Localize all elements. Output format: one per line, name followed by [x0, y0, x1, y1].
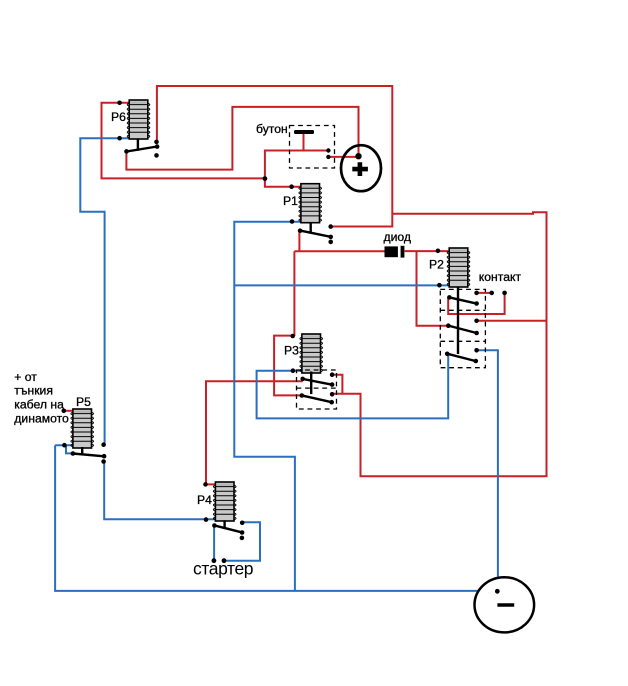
svg-text:динамото: динамото [14, 412, 69, 426]
svg-text:P3: P3 [284, 344, 299, 358]
wire red: diode line right segment to P2 coil [405, 250, 449, 252]
kontakt dashed divider 2 [440, 340, 485, 342]
kontakt SW1 armature [449, 297, 476, 303]
switch P6: armature [127, 147, 158, 152]
plus terminal circle [341, 145, 381, 191]
wire red: P3 upper NC contact riser stub [332, 375, 342, 394]
svg-text:бутон: бутон [256, 122, 288, 136]
diode line junction dot [436, 249, 441, 254]
svg-text:P1: P1 [283, 194, 298, 208]
wire blue: left tall wire down and along bottom to minus terminal [55, 445, 478, 591]
svg-text:+ от: + от [14, 370, 37, 384]
wire red: top loop from P6 NC contact to P1 NC contact via right side [157, 86, 392, 227]
kontakt dots [445, 291, 507, 364]
svg-text:P4: P4 [197, 493, 212, 507]
junction dot at (265,178.6) [263, 176, 268, 181]
P3 dots [290, 334, 334, 405]
P5 dots [62, 409, 107, 464]
wire red: button upper terminal wire, down to junction and to P1 coil [265, 151, 329, 187]
switch P3 lower armature [302, 395, 332, 402]
wire red: P1 pivot down to diode line [298, 231, 300, 251]
minus terminal circle [475, 577, 535, 632]
P4 dots [203, 482, 244, 540]
wire blue: P4 pivot down to starter terminal A [213, 526, 215, 561]
svg-text:стартер: стартер [193, 559, 253, 579]
plus sign [352, 162, 368, 176]
svg-text:контакт: контакт [479, 270, 522, 284]
svg-text:кабел на: кабел на [14, 398, 64, 412]
wire red: P3 upper pivot feed left and down to P4 coil [206, 381, 303, 484]
kontakt dashed box [440, 289, 485, 367]
relay coil P2 [447, 248, 470, 287]
wire blue: P5 coil bottom feed [55, 444, 73, 446]
wire red: kontakt SW1 contact stub to terminal A [477, 292, 492, 294]
kontakt SW3 armature [447, 354, 476, 361]
svg-text:P2: P2 [429, 258, 444, 272]
switch P6: dots [117, 101, 159, 158]
switch P5: actuator [81, 447, 83, 454]
P3 dashed box [297, 370, 337, 409]
relay coil P6 [127, 100, 150, 139]
wire red: diode line left segment [294, 250, 384, 252]
button terminal dots [326, 148, 330, 159]
wire blue: starter terminal B loop to P4 NC contact [224, 522, 260, 560]
svg-text:P6: P6 [111, 110, 126, 124]
wire red: P5 coil top stub [64, 410, 73, 412]
switch P1: dots [289, 184, 333, 244]
svg-text:тънкия: тънкия [14, 384, 53, 398]
wire blue: kontakt SW3 contact down to minus circle [477, 350, 498, 576]
wire blue: branch at y=285 to P2 coil bottom [234, 284, 449, 286]
minus sign [497, 603, 514, 607]
switch P6: actuator [137, 140, 139, 151]
switch P4: actuator [223, 520, 225, 529]
switch P5: armature [73, 454, 104, 457]
diode D1 body [385, 246, 398, 257]
wire red: T at x=416.5 down to kontakt SW2 pivot [417, 251, 449, 326]
wire red: kontakt SW1 pivot U-route to terminal B [448, 293, 504, 314]
kontakt actuator bar [457, 287, 459, 355]
switch P1: armature [300, 231, 331, 237]
wire red: button stem [303, 133, 305, 151]
relay coil P3 [300, 334, 323, 373]
kontakt SW2 armature [448, 326, 476, 333]
minus terminal dot [495, 589, 500, 594]
kontakt dashed divider 1 [440, 309, 485, 311]
wire blue: P5 jog to pivot [66, 445, 73, 453]
wire red: P3 coil-top left loop down to P3 lower pivot [274, 336, 301, 396]
relay coil P1 [299, 184, 322, 223]
relay coil P4 [213, 482, 236, 521]
wire blue: P6 coil bottom left, down to P5 NC contact [80, 138, 129, 444]
switch P1: actuator [310, 223, 312, 234]
relay coil P5 [71, 409, 94, 448]
starter terminal dots [212, 558, 227, 563]
wire red: vertical from diode line down to P3 coil top [293, 251, 295, 336]
label plus ot tynkiya kabel na dinamoto [14, 370, 69, 426]
wire red: P6 pivot down, inner loop up to y=107 and right into + terminal [126, 107, 358, 170]
diode D1 cathode bar [401, 246, 405, 258]
wire blue: P5 NO contact down and right to P4 coil bottom [104, 462, 215, 520]
P3 dashed divider [297, 387, 337, 389]
wire blue: P1 coil bottom left riser down to bottom wire [234, 222, 301, 591]
wire red: P6 coil top feed, left vertical, long horizontal y=178 [102, 103, 265, 179]
button bar [294, 130, 314, 134]
plus terminal junction dot [355, 153, 361, 159]
wire red: kontakt SW2 contact long wire to right vertical [477, 320, 547, 322]
switch P3 upper armature [303, 379, 332, 385]
wire blue: P3 coil bottom loop to kontakt SW3 pivot [257, 354, 449, 419]
switch P3: actuator [310, 372, 312, 395]
wire red: branch right at y=212 to right-side vertical down to y=476 and left to P3 riser [332, 212, 546, 476]
button dashed box [290, 126, 335, 169]
P2 blue junction dot [437, 283, 442, 288]
switch P4: armature [214, 525, 242, 532]
svg-text:P5: P5 [76, 395, 91, 409]
svg-text:диод: диод [384, 230, 412, 244]
wire red: button lower terminal to + terminal [328, 156, 358, 158]
